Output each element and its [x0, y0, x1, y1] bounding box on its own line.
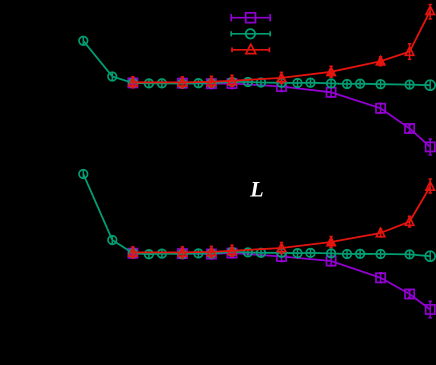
red triangle markers (top) [129, 78, 137, 86]
legend entry: red triangles [232, 47, 269, 52]
svg-text:L: L [249, 177, 263, 202]
purple squares series line (top) [133, 83, 430, 147]
legend entry: purple squares [231, 14, 270, 21]
purple error bars (bottom) [131, 248, 134, 258]
legend entry: teal circles [231, 31, 270, 36]
teal circles series line (bottom) [83, 174, 430, 256]
purple square markers (top) [128, 78, 137, 87]
teal circle markers (top) [79, 37, 88, 46]
teal circle markers (bottom) [79, 170, 88, 179]
teal error bars (top) [82, 37, 85, 45]
red triangle markers (bottom) [129, 248, 137, 256]
red error bars (top) [131, 77, 134, 88]
purple error bars (top) [131, 78, 134, 88]
purple squares series line (bottom) [133, 253, 430, 310]
teal circles series line (top) [83, 41, 430, 85]
red triangles series line (bottom) [133, 187, 430, 253]
teal error bars (bottom) [82, 170, 85, 178]
red error bars (bottom) [131, 247, 134, 258]
purple square markers (bottom) [128, 249, 137, 258]
red triangles series line (top) [133, 11, 430, 83]
